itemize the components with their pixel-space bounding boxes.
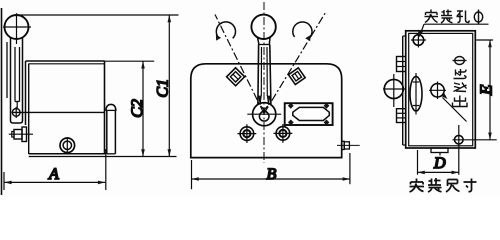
shaft slot right — [266, 47, 268, 96]
right side plate bottom tie — [107, 153, 116, 155]
panel screw right outer — [276, 127, 290, 141]
box outer wall left — [25, 61, 27, 125]
left bolt head — [14, 130, 22, 140]
arc left arrowhead — [216, 34, 221, 40]
寸 — [464, 179, 477, 192]
neck shoulder — [258, 44, 270, 46]
diamond bolt right slot — [294, 74, 299, 79]
bottom screw outer — [60, 138, 75, 153]
shaft left edge — [257, 45, 260, 105]
wire hole crosshair — [429, 89, 446, 91]
dimension C2 — [105, 61, 155, 156]
right side plate left edge — [106, 110, 108, 153]
box inner wall left — [28, 64, 30, 155]
nameplate inner hexagon — [293, 107, 330, 120]
boss inner X slot — [261, 106, 268, 113]
ellipse inner tick top — [413, 81, 419, 83]
线 — [454, 83, 467, 92]
安 — [425, 10, 439, 23]
side nut centerline — [337, 144, 360, 146]
shaft right edge — [270, 45, 271, 105]
fork right — [267, 96, 270, 105]
handle ball (front) — [251, 15, 275, 39]
装 — [428, 178, 442, 192]
nameplate outer — [285, 103, 333, 125]
left bolt flange — [22, 127, 27, 142]
ball crosshair — [16, 13, 18, 44]
panel screw left inner — [243, 130, 250, 137]
dimension B — [192, 153, 350, 189]
boss inner circle — [259, 112, 269, 122]
box bottom upper line — [29, 153, 107, 155]
rotation arc right — [293, 22, 312, 39]
svg-text:B: B — [266, 166, 276, 183]
chinese text 安装孔φ (top) — [425, 10, 483, 25]
fork left — [259, 96, 262, 105]
box right edge — [104, 61, 106, 154]
dimension A — [4, 149, 106, 190]
right side plate dome base — [105, 109, 116, 111]
right side plate right edge — [114, 110, 116, 153]
panel screw left cross — [238, 133, 257, 135]
尺 — [446, 180, 460, 193]
left bolt centerline — [9, 133, 33, 135]
svg-text:A: A — [48, 166, 59, 183]
孔 — [454, 69, 467, 79]
bracket left edge — [10, 38, 12, 121]
side nut flange — [342, 141, 345, 149]
bottom screw inner — [63, 141, 71, 149]
slot bottom — [15, 101, 20, 103]
left bolt tip — [12, 132, 14, 138]
boss horizontal centerline — [247, 113, 281, 115]
shaft slot left — [260, 47, 262, 96]
neck right — [268, 38, 271, 45]
nameplate corner screws — [288, 103, 330, 125]
bracket right edge — [22, 38, 24, 121]
rotation arc left — [216, 22, 235, 38]
tilt line right (dash-dot) — [264, 13, 326, 114]
vertical centerline (dash-dot) — [263, 2, 265, 163]
neck left — [258, 38, 259, 45]
cable gland tab — [431, 148, 448, 153]
diamond bolt right outer — [287, 66, 307, 86]
slot center stem — [16, 102, 18, 109]
body rounded box — [191, 64, 342, 158]
pivot circle — [12, 109, 20, 117]
出 — [453, 96, 468, 107]
chinese text 安装尺寸 (bottom) — [410, 178, 477, 192]
right side plate dome — [106, 104, 116, 110]
lower tab — [397, 109, 406, 123]
body inner rect — [409, 33, 473, 145]
top mounting hole — [413, 35, 424, 46]
svg-text:E: E — [477, 84, 496, 96]
安 — [410, 179, 425, 193]
tilt line left (dash-dot) — [215, 15, 264, 114]
arc right arrowhead — [305, 35, 310, 41]
panel screw left outer — [240, 127, 254, 141]
bottom hole crosshair / D right extension — [458, 125, 460, 175]
left flange line — [402, 36, 404, 145]
box top inner line — [29, 63, 105, 65]
diamond bolt left inner — [230, 72, 240, 82]
孔 — [457, 11, 470, 23]
lever slot left — [14, 47, 16, 102]
diamond bolt right inner — [291, 71, 302, 82]
chinese text 出线孔φ (rotated, right view) — [453, 57, 468, 107]
pivot vertical centerline — [15, 107, 17, 118]
box bottom lower line / extension to C dims — [29, 156, 177, 158]
extension line from ball top (C1) — [17, 14, 179, 16]
leader for top hole — [418, 24, 489, 37]
svg-text:D: D — [433, 155, 446, 172]
ellipse inner tick bottom — [413, 105, 419, 107]
dimension D — [418, 150, 459, 175]
slot ellipse — [410, 76, 422, 111]
top hole crosshair — [411, 39, 426, 41]
lever slot right — [19, 47, 21, 102]
joint horizontal line across box — [12, 111, 105, 113]
panel screw right cross — [274, 132, 293, 134]
dimension E — [476, 40, 493, 140]
bottom mounting hole — [455, 135, 464, 144]
bottom hole horizontal / E bottom extension — [453, 139, 497, 141]
bracket bottom — [11, 121, 23, 124]
lever bar outer line — [6, 42, 8, 98]
svg-text:C2: C2 — [129, 99, 146, 118]
ellipse centerline — [415, 73, 417, 115]
φ (top) — [453, 57, 467, 65]
side nut head — [344, 142, 349, 149]
panel screw right inner — [279, 130, 286, 137]
box top edge — [26, 60, 105, 62]
装 — [441, 10, 453, 24]
leader for wire hole — [441, 94, 467, 122]
φ — [474, 10, 482, 25]
diamond bolt left outer — [227, 68, 245, 86]
dimension C1 — [168, 15, 172, 157]
handle ball (side view) — [5, 15, 29, 39]
svg-text:C1: C1 — [154, 79, 171, 98]
hub crosshair — [383, 88, 406, 90]
diamond bolt left slot — [233, 74, 238, 79]
body outer rect — [406, 31, 476, 148]
wire outlet hole — [431, 84, 444, 97]
hub circle — [384, 80, 403, 99]
upper tab — [397, 57, 406, 72]
bottom screw slot line — [66, 137, 68, 153]
boss outer circle — [253, 103, 276, 126]
left scan border line — [1, 8, 3, 195]
